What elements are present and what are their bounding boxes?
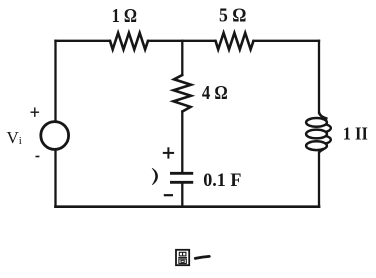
svg-text:1 II: 1 II [343, 123, 368, 143]
svg-text:0.1 F: 0.1 F [203, 171, 241, 191]
svg-text:4 Ω: 4 Ω [202, 83, 228, 104]
svg-text:5 Ω: 5 Ω [219, 6, 246, 27]
svg-text:Vi: Vi [7, 128, 22, 147]
svg-text:1 Ω: 1 Ω [112, 6, 137, 27]
